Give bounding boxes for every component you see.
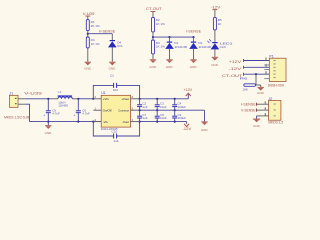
- pin number ticks P1: [265, 58, 268, 74]
- module U1 box: [101, 95, 130, 127]
- pin wire V-SENSE: [257, 109, 269, 111]
- ground at Common: [201, 121, 209, 132]
- svg-text:C10: C10: [112, 130, 118, 134]
- svg-text:+Vin: +Vin: [103, 97, 109, 101]
- ground under R3: [149, 59, 157, 69]
- connector P1 box: [269, 58, 286, 81]
- LED D3: [207, 39, 233, 49]
- wire node to zener: [88, 33, 113, 35]
- inductor L1: [58, 90, 73, 108]
- power port V-U39: [83, 12, 95, 17]
- inside pin name column P1: [273, 60, 275, 78]
- svg-text:GND: GND: [84, 66, 92, 70]
- pin lead L1 left: [48, 98, 58, 100]
- svg-text:1N4148: 1N4148: [198, 45, 211, 49]
- svg-text:+Vout: +Vout: [121, 97, 129, 101]
- pin stub J1-2: [18, 103, 25, 105]
- ground at R6: [257, 85, 265, 95]
- svg-text:10uF: 10uF: [160, 116, 167, 120]
- junction C5 bottom: [47, 121, 49, 123]
- wire -12V to R5: [214, 10, 216, 18]
- svg-text:1K 1%: 1K 1%: [91, 42, 100, 46]
- svg-text:GND: GND: [257, 91, 265, 95]
- zener D4: [108, 40, 123, 48]
- ground at input: [45, 122, 53, 135]
- wire R1-R2: [87, 31, 89, 37]
- svg-text:On/Off: On/Off: [103, 109, 112, 113]
- junction C6 top: [77, 98, 79, 100]
- pin tick -12V: [243, 66, 244, 69]
- svg-text:10K: 10K: [242, 88, 248, 92]
- svg-text:1uF: 1uF: [142, 116, 147, 120]
- svg-text:102: 102: [113, 88, 118, 92]
- svg-text:-Vout: -Vout: [122, 120, 129, 124]
- wire +12V to P1: [243, 60, 269, 62]
- junctions mid rail: [139, 109, 141, 111]
- capacitor C2: [137, 99, 148, 110]
- svg-text:I-SENSE: I-SENSE: [241, 103, 256, 107]
- wire -Vout rail: [138, 121, 186, 123]
- svg-text:100uF: 100uF: [178, 105, 187, 109]
- svg-text:1K 1%: 1K 1%: [156, 22, 165, 26]
- svg-text:+: +: [73, 114, 75, 118]
- svg-text:CT-OUT: CT-OUT: [146, 7, 163, 11]
- diode D2: [189, 37, 211, 49]
- pin number ticks J2: [264, 101, 267, 115]
- resistor R4: [86, 37, 100, 48]
- resistor R5: [213, 17, 222, 30]
- svg-text:1uF: 1uF: [114, 139, 119, 143]
- svg-text:-12V: -12V: [211, 6, 221, 10]
- svg-text:MKDS 1,5/2-5,08: MKDS 1,5/2-5,08: [4, 116, 29, 120]
- pin wire I-SENSE: [257, 103, 269, 105]
- wire R5 to LED: [214, 30, 216, 42]
- wire CT-OUT to P1: [243, 73, 269, 75]
- junction C1 left: [92, 98, 94, 100]
- power port -12V (top): [211, 6, 221, 11]
- wire R2-R3: [152, 32, 154, 40]
- capacitor C1 (top loop): [93, 74, 139, 99]
- junction on CT-OUT wire: [255, 73, 257, 75]
- ground under zener: [109, 62, 117, 71]
- wire gnd stem: [256, 116, 258, 119]
- module pin numbers: [95, 95, 134, 122]
- zener stem: [111, 34, 113, 41]
- resistor R2: [152, 17, 166, 32]
- svg-text:1K 1%: 1K 1%: [156, 45, 165, 49]
- junction C5 top: [47, 98, 49, 100]
- module U1 pin names: [103, 97, 130, 124]
- wire +Vout rail: [138, 98, 188, 100]
- capacitor C6: [73, 99, 90, 122]
- capacitor C5: [43, 99, 60, 122]
- svg-text:I-SENSE: I-SENSE: [186, 30, 202, 34]
- wire V-U39 to R1: [87, 16, 89, 19]
- diode D1: [165, 37, 187, 49]
- wire R4 to gnd: [87, 48, 89, 62]
- svg-text:1N4148: 1N4148: [174, 45, 187, 49]
- svg-text:GND: GND: [211, 63, 219, 67]
- capacitor C9: [172, 110, 186, 121]
- svg-text:J1: J1: [10, 91, 14, 95]
- svg-text:5V1: 5V1: [117, 44, 123, 48]
- svg-text:100uF: 100uF: [178, 116, 187, 120]
- svg-text:U1: U1: [101, 91, 106, 95]
- ground under LED: [211, 57, 219, 67]
- ground at J2: [253, 119, 261, 128]
- junction: [152, 36, 154, 38]
- svg-text:P1: P1: [269, 54, 273, 58]
- svg-text:GND: GND: [109, 66, 117, 70]
- connector J1 box: [10, 95, 19, 107]
- capacitor C4: [172, 99, 186, 110]
- wire LED to gnd: [214, 49, 216, 56]
- svg-text:-12V: -12V: [182, 127, 192, 131]
- pin tick +12V: [243, 59, 244, 62]
- svg-text:GND: GND: [149, 65, 157, 69]
- svg-text:C1: C1: [110, 74, 114, 78]
- inside pin name column J2: [274, 104, 276, 117]
- junction D1: [168, 36, 170, 38]
- power port -12V (bottom): [182, 122, 192, 131]
- pin tick I-SENSE: [256, 103, 257, 106]
- capacitor C3: [155, 99, 167, 110]
- svg-text:+12V: +12V: [229, 60, 242, 64]
- junctions top rail: [139, 98, 141, 100]
- wire Common rail: [138, 109, 204, 111]
- ground under D1: [166, 59, 174, 69]
- pin stub J1-1: [18, 98, 25, 100]
- pin tick CT-OUT: [243, 73, 244, 76]
- wire zener to gnd: [111, 47, 113, 61]
- power port CT-OUT: [146, 7, 163, 12]
- pin numbers inside J1: [15, 98, 17, 104]
- junction C6 bottom: [77, 121, 79, 123]
- svg-text:1uF: 1uF: [142, 105, 147, 109]
- svg-text:10uF: 10uF: [160, 105, 167, 109]
- capacitor C10 (bottom loop): [93, 122, 139, 143]
- svg-text:MKDS 1,5: MKDS 1,5: [268, 120, 283, 124]
- svg-text:R6: R6: [240, 76, 249, 80]
- wire top rail mid: [78, 98, 93, 100]
- svg-text:4.7uF: 4.7uF: [82, 112, 90, 116]
- wire pin2: [25, 104, 30, 121]
- svg-text:+: +: [43, 114, 45, 118]
- power port +12V: [183, 88, 192, 99]
- wire -12V to P1: [243, 66, 269, 68]
- svg-text:4.7uF: 4.7uF: [52, 112, 60, 116]
- wire CT-OUT to R2: [152, 12, 154, 18]
- svg-text:Common: Common: [118, 109, 129, 113]
- svg-text:V-U39: V-U39: [83, 12, 95, 16]
- svg-text:V-SENSE: V-SENSE: [99, 29, 116, 33]
- svg-text:GND: GND: [201, 128, 209, 132]
- wire top rail left: [25, 98, 49, 100]
- junction C10 left: [92, 121, 94, 123]
- wire down to R6: [255, 74, 257, 85]
- svg-text:2K 1%: 2K 1%: [91, 24, 100, 28]
- connector J2 box: [269, 101, 281, 121]
- ground under D2: [190, 59, 198, 69]
- module right pin stubs: [131, 99, 139, 122]
- junctions bottom rail: [139, 121, 141, 123]
- resistor R6: [242, 84, 255, 92]
- pin lead L1 right: [72, 98, 78, 100]
- wire D2 to gnd: [193, 49, 195, 59]
- svg-text:DB9H-09S: DB9H-09S: [268, 83, 285, 87]
- resistor R3: [152, 40, 166, 54]
- wire Common down: [204, 110, 206, 121]
- ground under R4: [84, 62, 92, 71]
- module left pin stubs: [93, 99, 101, 122]
- svg-text:RED: RED: [220, 45, 227, 49]
- pin tick V-SENSE: [256, 109, 257, 112]
- wire bottom rail: [30, 121, 102, 123]
- wire R3 to gnd: [152, 54, 154, 59]
- wire R6 to gnd: [256, 84, 261, 86]
- svg-text:GND: GND: [45, 131, 53, 135]
- svg-text:GND: GND: [190, 65, 198, 69]
- svg-text:V-SENSE: V-SENSE: [241, 109, 256, 113]
- svg-text:-12V: -12V: [229, 67, 243, 71]
- svg-text:110459: 110459: [58, 104, 68, 108]
- capacitor C8: [155, 110, 167, 121]
- svg-text:V-U39: V-U39: [24, 92, 42, 96]
- wire D1 to gnd: [169, 49, 171, 59]
- resistor R1: [86, 20, 100, 31]
- svg-text:GND: GND: [166, 65, 174, 69]
- capacitor C7: [137, 110, 148, 121]
- pin wire gnd: [257, 115, 269, 117]
- junction: [87, 33, 89, 35]
- pin stubs P1: [264, 61, 269, 79]
- wire node bus: [153, 36, 194, 38]
- junction D2: [192, 36, 194, 38]
- svg-text:L1: L1: [58, 90, 62, 94]
- svg-text:+12V: +12V: [183, 88, 192, 92]
- svg-text:-Vin: -Vin: [103, 120, 109, 124]
- svg-text:GND: GND: [253, 124, 261, 128]
